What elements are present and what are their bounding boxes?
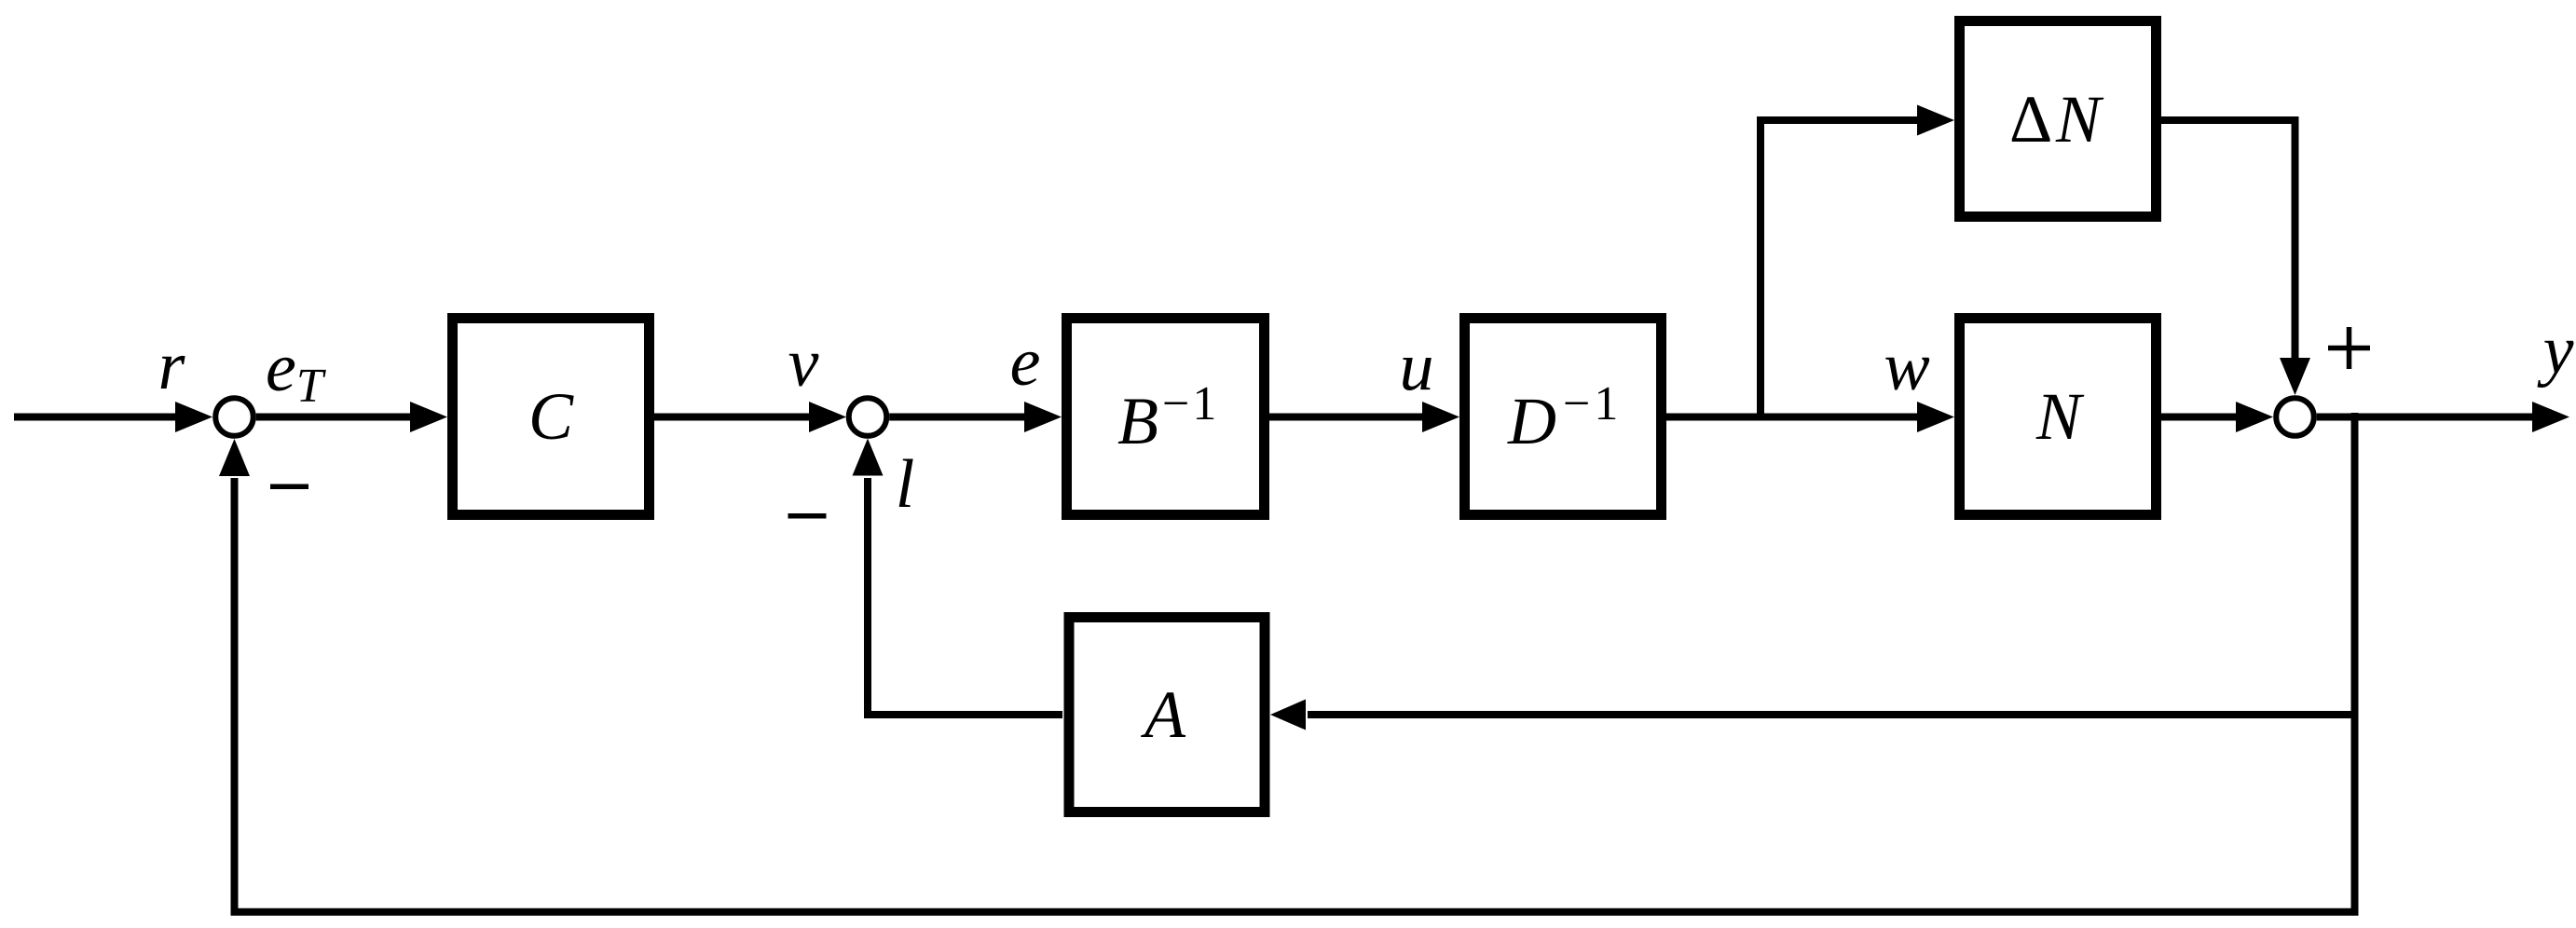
wire S2 to B <box>889 414 1026 421</box>
svg-text:N: N <box>2055 82 2104 157</box>
wire C to S2 <box>654 414 811 421</box>
summing junction S3 <box>2276 398 2314 436</box>
svg-text:Δ: Δ <box>2009 82 2052 157</box>
svg-text:w: w <box>1884 329 1929 405</box>
summing junction S1 <box>215 398 253 436</box>
wire D to N with branch node <box>1666 414 1919 421</box>
svg-text:r: r <box>158 328 186 404</box>
wire N to S3 <box>2161 414 2238 421</box>
block B^-1 <box>1067 319 1265 515</box>
svg-text:N: N <box>2035 379 2085 454</box>
svg-text:A: A <box>1141 677 1186 752</box>
arrowhead into C <box>410 402 447 432</box>
arrowhead into A <box>1270 700 1306 730</box>
plus sign at S3 <box>2328 327 2370 369</box>
arrowhead up into S2 <box>853 439 884 476</box>
wire DeltaN output down to S3 <box>2161 120 2295 360</box>
wire branch up to DeltaN <box>1761 120 1919 420</box>
arrowhead into N <box>1917 402 1954 432</box>
svg-text:v: v <box>788 325 819 402</box>
arrowhead into B <box>1024 402 1062 432</box>
minus sign at S2 <box>788 513 827 519</box>
arrowhead output y <box>2532 402 2569 432</box>
block D^-1 <box>1465 319 1662 515</box>
arrowhead into summing junction S1 <box>175 402 212 432</box>
block A <box>1069 618 1265 812</box>
summing junction S2 <box>849 398 887 436</box>
block N <box>1960 319 2157 515</box>
wire r input <box>14 414 179 421</box>
arrowhead into D <box>1422 402 1459 432</box>
wire A output to S2 <box>868 478 1062 715</box>
block C <box>453 319 650 515</box>
svg-text:u: u <box>1400 329 1434 405</box>
wire S3 to output y <box>2317 414 2534 421</box>
arrowhead into summing junction S2 <box>809 402 846 432</box>
arrowhead into DeltaN <box>1917 105 1954 136</box>
block DeltaN <box>1960 21 2157 217</box>
svg-text:C: C <box>528 379 574 454</box>
svg-text:l: l <box>896 446 915 523</box>
svg-text:e: e <box>1010 324 1041 401</box>
wire S1 to C <box>256 414 412 421</box>
wire takeoff to A <box>1308 711 2355 718</box>
arrowhead down into S3 <box>2280 358 2310 395</box>
arrowhead up into S1 <box>219 439 250 476</box>
wire takeoff down and outer feedback to S1 <box>235 413 2355 912</box>
minus sign at S1 <box>270 484 308 490</box>
wire B to D <box>1269 414 1424 421</box>
arrowhead into S3 <box>2236 402 2273 432</box>
